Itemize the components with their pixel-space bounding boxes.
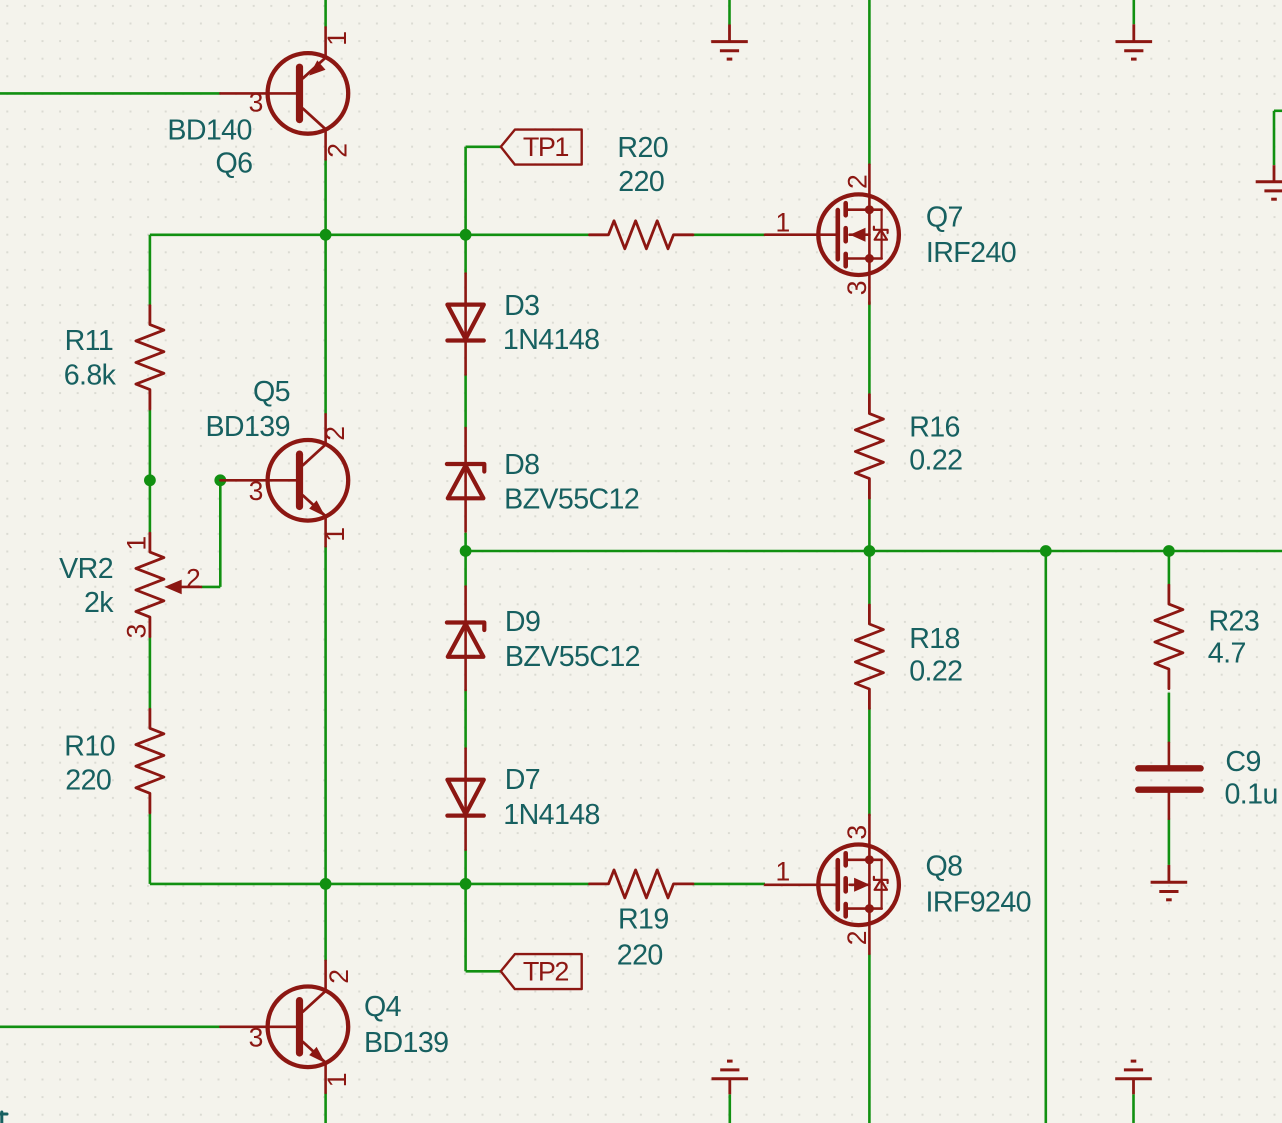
svg-text:2: 2 xyxy=(842,931,872,946)
svg-text:R11: R11 xyxy=(65,325,114,357)
svg-text:R23: R23 xyxy=(1209,605,1260,637)
svg-text:R18: R18 xyxy=(909,623,960,655)
svg-text:R10: R10 xyxy=(64,731,115,763)
svg-text:3: 3 xyxy=(249,476,264,506)
svg-text:IRF9240: IRF9240 xyxy=(926,886,1031,918)
svg-text:BZV55C12: BZV55C12 xyxy=(505,641,640,673)
svg-text:IRF240: IRF240 xyxy=(926,237,1016,269)
svg-text:R19: R19 xyxy=(618,903,669,935)
svg-text:D9: D9 xyxy=(505,606,540,638)
svg-text:Q6: Q6 xyxy=(215,148,252,180)
svg-text:3: 3 xyxy=(122,624,152,639)
svg-text:D8: D8 xyxy=(504,449,539,481)
svg-text:220: 220 xyxy=(617,939,663,971)
svg-text:3: 3 xyxy=(842,281,872,296)
svg-text:3: 3 xyxy=(249,1022,264,1052)
svg-text:2: 2 xyxy=(324,969,354,984)
svg-text:Q7: Q7 xyxy=(926,201,963,233)
svg-text:2: 2 xyxy=(842,174,872,189)
svg-text:4.7: 4.7 xyxy=(1208,638,1246,670)
svg-text:Q4: Q4 xyxy=(364,991,402,1023)
svg-text:1: 1 xyxy=(322,31,352,46)
svg-text:1: 1 xyxy=(776,207,791,237)
svg-text:1: 1 xyxy=(122,536,152,551)
svg-text:2: 2 xyxy=(186,564,201,594)
svg-text:1: 1 xyxy=(320,527,350,542)
svg-text:3: 3 xyxy=(249,87,264,117)
svg-text:3: 3 xyxy=(842,825,872,840)
svg-text:220: 220 xyxy=(618,166,664,198)
svg-text:1: 1 xyxy=(776,857,791,887)
svg-text:Q8: Q8 xyxy=(926,851,963,883)
svg-text:C9: C9 xyxy=(1225,746,1260,778)
svg-text:BD139: BD139 xyxy=(364,1027,448,1059)
svg-text:BD139: BD139 xyxy=(205,411,289,443)
svg-text:TP1: TP1 xyxy=(523,132,569,162)
svg-text:TP2: TP2 xyxy=(523,957,569,987)
svg-text:D3: D3 xyxy=(504,290,539,322)
svg-text:2: 2 xyxy=(320,426,350,441)
svg-text:VR2: VR2 xyxy=(59,553,113,585)
svg-text:BD140: BD140 xyxy=(167,114,251,146)
svg-text:1: 1 xyxy=(322,1073,352,1088)
svg-text:Q5: Q5 xyxy=(253,376,290,408)
svg-text:R16: R16 xyxy=(909,412,960,444)
svg-text:220: 220 xyxy=(65,764,111,796)
svg-text:1N4148: 1N4148 xyxy=(503,324,600,356)
svg-text:1N4148: 1N4148 xyxy=(503,799,600,831)
svg-text:0.22: 0.22 xyxy=(909,444,962,476)
svg-text:0.1u: 0.1u xyxy=(1225,779,1278,811)
svg-text:0.22: 0.22 xyxy=(909,656,962,688)
svg-text:D7: D7 xyxy=(505,764,540,796)
svg-text:2: 2 xyxy=(323,143,353,158)
svg-text:R20: R20 xyxy=(617,132,668,164)
svg-text:2k: 2k xyxy=(84,587,114,619)
svg-text:6.8k: 6.8k xyxy=(64,359,117,391)
svg-text:BZV55C12: BZV55C12 xyxy=(504,483,639,515)
